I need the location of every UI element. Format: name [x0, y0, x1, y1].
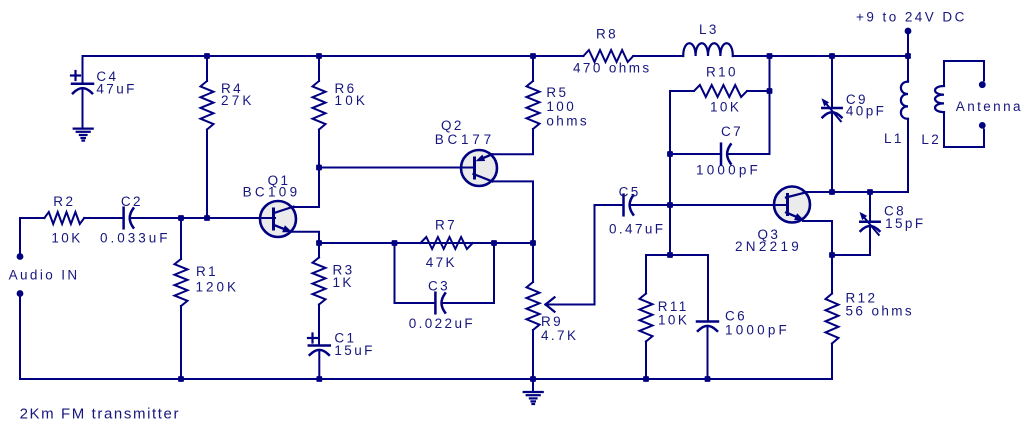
wire R10 left riser — [669, 91, 671, 255]
svg-text:2N2219: 2N2219 — [735, 239, 802, 254]
wire R3 to C1 — [318, 305, 320, 346]
label Q3 — [758, 227, 781, 242]
svg-text:4.7K: 4.7K — [541, 328, 578, 343]
wire input left — [20, 217, 44, 219]
capacitor C3 — [435, 293, 445, 314]
node rail C6 — [705, 376, 711, 382]
label C1 plus — [308, 334, 317, 343]
node collector/C9 — [829, 189, 835, 195]
label R2 — [53, 194, 75, 209]
label +9 to 24V DC — [856, 10, 967, 25]
label L1 — [884, 131, 904, 146]
label R3 — [333, 263, 355, 278]
svg-text:R8: R8 — [596, 27, 618, 42]
svg-text:1000pF: 1000pF — [725, 323, 790, 338]
wire emitter bus — [319, 242, 533, 244]
svg-text:R5: R5 — [546, 85, 568, 100]
label 47K — [426, 255, 457, 270]
inductor L1 — [901, 82, 908, 119]
wire Q3 emitter — [803, 221, 832, 255]
svg-text:C3: C3 — [428, 278, 450, 293]
resistor R12 — [826, 294, 839, 344]
label C8 — [884, 203, 906, 218]
node C5 out — [667, 202, 673, 208]
label 40pF — [846, 104, 886, 119]
resistor R9 — [527, 282, 540, 330]
wire C3 left branch — [395, 243, 436, 303]
wire audio lower to ground rail — [19, 297, 21, 379]
svg-text:100: 100 — [546, 99, 576, 114]
node rail junction R6 — [316, 53, 322, 59]
svg-text:470 ohms: 470 ohms — [573, 60, 652, 75]
svg-text:27K: 27K — [221, 93, 255, 108]
wire ground rail — [20, 378, 832, 380]
node C7 left tee — [667, 151, 673, 157]
node rail junction R4 — [204, 53, 210, 59]
wire Q1 collector riser — [293, 168, 319, 208]
svg-text:C2: C2 — [121, 194, 143, 209]
node antenna terminal bottom — [979, 122, 986, 129]
svg-text:+9 to 24V DC: +9 to 24V DC — [856, 10, 967, 25]
svg-text:15uF: 15uF — [334, 343, 374, 358]
label R7 — [435, 218, 457, 233]
resistor R6 — [313, 81, 326, 130]
label R11 — [658, 299, 689, 314]
wire R5 top lead — [532, 56, 534, 81]
capacitor C8 variable — [860, 212, 880, 235]
svg-text:R9: R9 — [541, 314, 563, 329]
node antenna terminal top — [979, 81, 986, 88]
capacitor C6 — [697, 322, 718, 331]
label 56 ohms — [846, 304, 915, 319]
wire R1 bottom lead — [180, 306, 182, 379]
node Q3 emitter junction — [829, 252, 835, 258]
wire top supply rail — [83, 55, 909, 57]
wire Q1 emitter — [291, 232, 319, 243]
wire R9 bottom lead — [532, 330, 534, 379]
svg-text:BC177: BC177 — [435, 132, 495, 147]
wire Q3 collector — [805, 191, 908, 193]
wire C6 top lead — [707, 255, 709, 321]
label 1000pF C7 — [696, 163, 761, 178]
wire R4 bottom lead — [206, 130, 208, 219]
wire C2 to Q1 base — [130, 217, 274, 219]
resistor R2 — [44, 212, 84, 224]
resistor R5 — [527, 81, 540, 129]
transistor Q1 — [259, 201, 296, 237]
node R6/Q1 collector/Q2 base — [316, 165, 322, 171]
label L3 — [699, 22, 719, 37]
svg-text:47K: 47K — [426, 255, 457, 270]
label 10K R10 — [710, 99, 741, 114]
node rail junction R5 — [530, 53, 536, 59]
label R8 — [596, 27, 618, 42]
wire R11 top lead — [645, 255, 647, 294]
label R10 — [706, 65, 738, 80]
svg-text:10K: 10K — [658, 312, 689, 327]
svg-text:L3: L3 — [699, 22, 719, 37]
label C7 — [721, 124, 743, 139]
svg-text:ohms: ohms — [546, 114, 589, 129]
node rail R11 — [643, 376, 649, 382]
label 470 ohms — [573, 60, 652, 75]
wire C8 bottom lead — [832, 227, 870, 255]
svg-text:C5: C5 — [619, 185, 641, 200]
svg-text:56 ohms: 56 ohms — [846, 304, 915, 319]
svg-text:10K: 10K — [710, 99, 741, 114]
label Audio IN — [9, 268, 80, 283]
node R7 right — [491, 240, 497, 246]
label Q2 — [441, 118, 464, 133]
label R4 — [221, 81, 243, 96]
resistor R4 — [201, 81, 214, 130]
transistor Q3 — [773, 187, 810, 223]
svg-text:R7: R7 — [435, 218, 457, 233]
label 0.033uF — [100, 231, 171, 246]
node collector/C8 — [867, 189, 873, 195]
node bias tee — [667, 252, 673, 258]
wire L2 bottom to antenna — [944, 112, 984, 147]
resistor R3 — [313, 258, 326, 305]
svg-text:120K: 120K — [196, 279, 240, 294]
label C1 — [334, 330, 356, 345]
svg-text:1K: 1K — [333, 275, 354, 290]
label C4 — [96, 69, 118, 84]
wire R9 wiper feedback — [546, 205, 624, 312]
wire C9 top lead — [831, 56, 833, 108]
svg-text:15pF: 15pF — [885, 216, 925, 231]
label 1K — [333, 275, 354, 290]
label C6 — [725, 308, 747, 323]
label 0.022uF — [409, 316, 475, 331]
wire R6 bottom lead — [318, 130, 320, 168]
label 27K — [221, 93, 255, 108]
label R1 — [196, 264, 218, 279]
label 1000pF C6 — [725, 323, 790, 338]
wire C7 right riser — [727, 56, 770, 154]
label 0.47uF — [609, 222, 665, 237]
svg-text:R1: R1 — [196, 264, 218, 279]
svg-text:C7: C7 — [721, 124, 743, 139]
wire C4 bottom lead — [82, 90, 84, 129]
wire R12 top lead — [831, 255, 833, 294]
label ohms R5 — [546, 114, 589, 129]
label L2 — [921, 132, 941, 147]
svg-text:Audio IN: Audio IN — [9, 268, 80, 283]
ground below rail — [524, 392, 543, 404]
wire L2 top to antenna — [944, 61, 984, 86]
wire C6 bottom lead — [707, 327, 709, 379]
label 120K — [196, 279, 240, 294]
wire C9 bottom lead — [831, 114, 833, 193]
transistor Q2 — [460, 150, 497, 186]
node rail C1 — [316, 376, 322, 382]
label 10K R2 — [51, 231, 82, 246]
resistor R11 — [640, 294, 653, 342]
wire Q3 base — [630, 204, 786, 206]
label C4 plus — [71, 71, 80, 80]
wire C3 right branch — [442, 243, 495, 303]
wire bias tee arms — [646, 254, 708, 256]
label 47uF — [96, 82, 136, 97]
label 2N2219 — [735, 239, 802, 254]
label BC109 — [243, 184, 301, 199]
wire R4 top lead — [206, 56, 208, 81]
svg-text:R2: R2 — [53, 194, 75, 209]
wire C4 top lead — [82, 56, 84, 84]
node R10 right — [767, 88, 773, 94]
wire C8 top lead — [869, 192, 871, 222]
svg-text:R10: R10 — [706, 65, 738, 80]
wire R10 right lead — [747, 90, 770, 92]
label R9 — [541, 314, 563, 329]
label title — [20, 405, 180, 422]
wire R10 left lead — [670, 90, 694, 92]
wire L1 bottom lead — [907, 119, 909, 192]
label R6 — [335, 81, 357, 96]
inductor L3 — [683, 43, 733, 56]
wire R12 bottom lead — [831, 344, 833, 380]
ground below C4 — [74, 129, 93, 141]
node R7 left — [392, 240, 398, 246]
label C5 — [619, 185, 641, 200]
resistor R8 — [583, 50, 633, 62]
svg-text:Q2: Q2 — [441, 118, 464, 133]
wire R7 right lead — [473, 242, 494, 244]
node emitter bus right — [530, 240, 536, 246]
svg-text:40pF: 40pF — [846, 104, 886, 119]
wire bias riser — [669, 205, 671, 255]
label 10K R11 — [658, 312, 689, 327]
inductor L2 — [935, 86, 944, 112]
svg-text:10K: 10K — [335, 93, 369, 108]
wire Q2 collector — [492, 181, 533, 243]
node audio terminal 1 — [17, 253, 24, 260]
svg-text:1000pF: 1000pF — [696, 163, 761, 178]
capacitor C5 — [624, 195, 634, 216]
label BC177 — [435, 132, 495, 147]
wire R5 to Q2 emitter — [492, 129, 533, 154]
label Q1 — [268, 173, 291, 188]
wire C7 left lead — [670, 153, 721, 155]
node R1 top — [178, 215, 184, 221]
label R5 — [546, 85, 568, 100]
resistor R10 — [694, 85, 747, 97]
label Antenna — [956, 99, 1023, 114]
wire L1 top lead — [907, 56, 909, 82]
wire R11 bottom lead — [645, 342, 647, 380]
node audio terminal 2 — [17, 290, 24, 297]
label 15uF — [334, 343, 374, 358]
label 15pF — [885, 216, 925, 231]
node rail junction C9 — [829, 53, 835, 59]
resistor R1 — [175, 259, 188, 306]
node rail junction L1 — [905, 53, 911, 59]
wire R1 top lead — [180, 218, 182, 259]
wire C1 bottom lead — [318, 351, 320, 379]
node +V supply terminal — [905, 28, 912, 56]
svg-text:0.47uF: 0.47uF — [609, 222, 665, 237]
svg-text:2Km FM transmitter: 2Km FM transmitter — [20, 405, 180, 422]
label R12 — [846, 291, 878, 306]
label 4.7K — [541, 328, 578, 343]
node rail junction R10 — [767, 53, 773, 59]
label 10K R6 — [335, 93, 369, 108]
svg-text:L1: L1 — [884, 131, 904, 146]
wire R7 left lead — [395, 242, 421, 244]
label C3 — [428, 278, 450, 293]
svg-text:10K: 10K — [51, 231, 82, 246]
svg-text:BC109: BC109 — [243, 184, 301, 199]
capacitor C9 variable — [822, 98, 842, 121]
label 100 — [546, 99, 576, 114]
wire R6 top lead — [318, 56, 320, 81]
wire R9 top lead — [532, 243, 534, 282]
resistor R7 — [421, 237, 473, 249]
svg-text:0.033uF: 0.033uF — [100, 231, 171, 246]
node rail R9 — [530, 376, 536, 382]
wire R3 top lead — [318, 243, 320, 258]
wire R2 to C2 — [84, 217, 123, 219]
capacitor C2 — [124, 208, 134, 229]
svg-text:C6: C6 — [725, 308, 747, 323]
wire rail ground stub — [532, 379, 534, 392]
node Q1 emitter junction — [316, 240, 322, 246]
capacitor C1 — [309, 346, 330, 355]
capacitor C7 — [721, 144, 731, 165]
svg-text:L2: L2 — [921, 132, 941, 147]
node rail R1 — [178, 376, 184, 382]
label C2 — [121, 194, 143, 209]
svg-text:Antenna: Antenna — [956, 99, 1023, 114]
wire Q2 base — [319, 167, 474, 169]
label C9 — [846, 92, 868, 107]
node R4 bottom junction — [204, 215, 210, 221]
capacitor C4 — [72, 84, 93, 93]
wire audio upper terminal — [19, 218, 21, 253]
svg-text:47uF: 47uF — [96, 82, 136, 97]
svg-text:0.022uF: 0.022uF — [409, 316, 475, 331]
